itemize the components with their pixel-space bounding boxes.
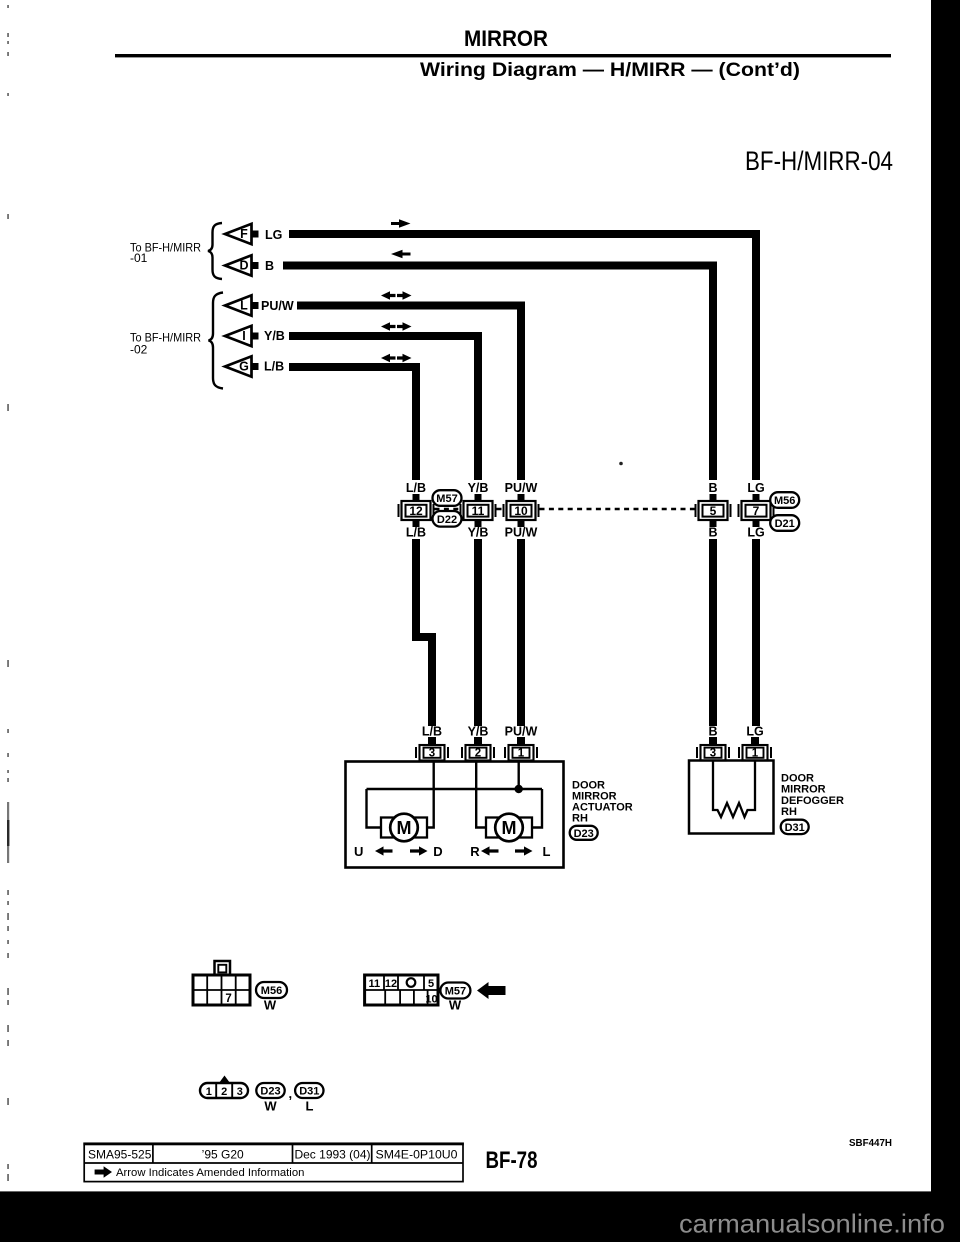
svg-text:’95 G20: ’95 G20 xyxy=(202,1148,244,1162)
motor M right/left xyxy=(486,814,532,842)
svg-text:3: 3 xyxy=(710,748,716,760)
svg-text:M57: M57 xyxy=(436,493,457,505)
svg-text:RH: RH xyxy=(572,813,588,825)
svg-text:W: W xyxy=(264,998,277,1013)
defogger heater element resistor xyxy=(713,761,755,818)
connector label D23 xyxy=(570,826,598,840)
svg-text:Y/B: Y/B xyxy=(468,481,489,495)
connector face D23/D31 body xyxy=(200,1083,248,1098)
amended-section pointer arrow xyxy=(477,982,506,999)
connector label D31 xyxy=(781,820,809,834)
in-line connector pin 7 xyxy=(738,494,775,527)
wire label Y/B above connector 11 xyxy=(468,481,489,495)
wire B lower vertical xyxy=(709,539,717,726)
svg-text:1: 1 xyxy=(206,1086,212,1098)
in-line connector pin 11 xyxy=(460,494,497,527)
svg-text:SMA95-525: SMA95-525 xyxy=(88,1148,152,1162)
defogger pin 1 xyxy=(738,737,772,761)
connector label M57 xyxy=(433,490,462,506)
svg-text:LG: LG xyxy=(747,526,764,540)
svg-text:M57: M57 xyxy=(445,986,466,998)
wire B horizontal xyxy=(283,262,717,270)
connector label D23 (face) xyxy=(256,1083,284,1098)
connector label D31 (face) xyxy=(295,1083,323,1098)
svg-text:L: L xyxy=(306,1099,314,1114)
svg-text:B: B xyxy=(708,725,717,739)
wire LG vertical upper xyxy=(752,230,760,480)
diagram code BF-H/MIRR-04 xyxy=(745,146,893,176)
wire Y/B horizontal xyxy=(289,332,482,340)
svg-text:G: G xyxy=(239,360,249,374)
svg-text:I: I xyxy=(242,329,245,343)
svg-text:PU/W: PU/W xyxy=(505,725,538,739)
connector arrow G xyxy=(225,356,259,376)
in-line connector pin 12 xyxy=(398,494,435,527)
svg-text:12: 12 xyxy=(385,978,397,990)
svg-text:L/B: L/B xyxy=(406,526,426,540)
label DOOR MIRROR ACTUATOR RH xyxy=(572,779,633,824)
junction node on PU/W feed xyxy=(515,785,523,793)
dashed connector separation line xyxy=(435,508,695,510)
svg-text:LG: LG xyxy=(746,725,763,739)
svg-text:D23: D23 xyxy=(574,828,594,840)
amended double arrow (L/B wire) xyxy=(381,354,412,362)
footer cell SMA95-525 xyxy=(88,1148,152,1162)
footer cell 95 G20 xyxy=(202,1148,244,1162)
wire label LG xyxy=(265,228,282,242)
svg-text:B: B xyxy=(708,481,717,495)
svg-text:SM4E-0P10U0: SM4E-0P10U0 xyxy=(376,1148,458,1162)
actuator pin 1 xyxy=(504,737,538,761)
connector label M57 (face) xyxy=(440,983,470,999)
watermark carmanualsonline.info xyxy=(679,1209,945,1239)
wire label PU/W below connector 10 xyxy=(505,526,538,540)
svg-text:M56: M56 xyxy=(261,985,282,997)
svg-text:D31: D31 xyxy=(785,822,805,834)
wire label PU/W above connector 10 xyxy=(505,481,538,495)
svg-text:2: 2 xyxy=(221,1086,227,1098)
svg-text:PU/W: PU/W xyxy=(505,526,538,540)
svg-text:MIRROR: MIRROR xyxy=(781,784,826,796)
svg-text:LG: LG xyxy=(265,228,282,242)
svg-text:R: R xyxy=(470,844,480,859)
connector face M57 grid xyxy=(365,975,438,1006)
svg-text:DEFOGGER: DEFOGGER xyxy=(781,795,844,807)
comma separator xyxy=(289,1086,293,1101)
footer cell Dec 1993 (04) xyxy=(294,1148,370,1162)
wire Y/B vertical upper xyxy=(474,332,482,480)
wire label Y/B xyxy=(264,329,285,343)
wire label B above defogger pin 3 xyxy=(708,725,717,739)
svg-text:SBF447H: SBF447H xyxy=(849,1137,892,1149)
wire label B above connector 5 xyxy=(708,481,717,495)
wire PU/W lower vertical xyxy=(517,539,525,726)
svg-text:3: 3 xyxy=(237,1086,243,1098)
connector label M56 (face) xyxy=(256,982,287,998)
svg-text:L/B: L/B xyxy=(264,360,284,374)
in-line connector pin 5 xyxy=(695,494,732,527)
wire L/B horizontal xyxy=(289,363,420,371)
scan mark vertical line left margin xyxy=(7,802,9,863)
svg-text:PU/W: PU/W xyxy=(505,481,538,495)
connector arrow F xyxy=(225,224,259,244)
colour code W (D23) xyxy=(264,1099,277,1114)
footer cell SM4E-0P10U0 xyxy=(376,1148,458,1162)
svg-text:B: B xyxy=(265,259,274,273)
svg-text:M56: M56 xyxy=(774,495,795,507)
wire L/B lower vertical with jog xyxy=(412,539,436,726)
brace for group -01 xyxy=(208,223,222,279)
svg-text:D23: D23 xyxy=(260,1086,280,1098)
scan specks left margin xyxy=(7,5,9,1181)
wire L/B vertical upper xyxy=(412,363,420,480)
svg-text:-02: -02 xyxy=(130,343,148,357)
scanner black bar bottom xyxy=(0,1191,960,1242)
svg-text:10: 10 xyxy=(514,504,528,518)
svg-text:Wiring Diagram — H/MIRR — (Con: Wiring Diagram — H/MIRR — (Cont’d) xyxy=(420,60,800,81)
svg-text:BF-78: BF-78 xyxy=(486,1147,538,1174)
svg-text:-01: -01 xyxy=(130,251,148,265)
wire PU/W horizontal xyxy=(297,302,525,310)
speck near dashed line xyxy=(619,462,623,466)
wire label B below connector 5 xyxy=(708,526,717,540)
connector arrow D xyxy=(225,255,259,275)
wire label PU/W xyxy=(261,299,294,313)
amended arrow right (LG wire) xyxy=(391,219,411,227)
wire LG lower vertical xyxy=(752,539,760,726)
svg-text:B: B xyxy=(708,526,717,540)
wire B vertical upper xyxy=(709,262,717,481)
svg-text:D22: D22 xyxy=(437,514,457,526)
svg-text:D31: D31 xyxy=(299,1086,319,1098)
svg-text:LG: LG xyxy=(747,481,764,495)
svg-text:Y/B: Y/B xyxy=(468,725,489,739)
wire Y/B lower vertical xyxy=(474,539,482,726)
connector face D23/D31 clip xyxy=(219,1076,230,1084)
actuator pin 2 xyxy=(461,737,495,761)
in-line connector pin 10 xyxy=(503,494,540,527)
connector label M56 xyxy=(770,492,799,508)
brace for group -02 xyxy=(209,293,224,389)
footer table frame xyxy=(83,1143,463,1182)
svg-text:W: W xyxy=(264,1099,277,1114)
amended double arrow (Y/B wire) xyxy=(381,322,412,330)
wire label L/B xyxy=(264,360,284,374)
scanner black strip right xyxy=(931,0,960,1242)
svg-text:F: F xyxy=(240,227,248,241)
amended double arrow (PU/W wire) xyxy=(381,291,412,299)
wire label LG above connector 7 xyxy=(747,481,764,495)
svg-text:2: 2 xyxy=(475,748,481,760)
svg-text:7: 7 xyxy=(753,504,760,518)
svg-text:5: 5 xyxy=(428,978,434,990)
svg-text:PU/W: PU/W xyxy=(261,299,294,313)
label To BF-H/MIRR -01 xyxy=(130,241,201,266)
svg-text:RH: RH xyxy=(781,806,797,818)
svg-text:BF-H/MIRR-04: BF-H/MIRR-04 xyxy=(745,146,893,176)
page number BF-78 xyxy=(486,1147,538,1174)
header rule line xyxy=(115,54,891,57)
svg-text:Y/B: Y/B xyxy=(468,526,489,540)
actuator internal wiring xyxy=(367,761,543,828)
svg-text:1: 1 xyxy=(752,748,759,760)
amended arrow left (B wire) xyxy=(391,250,411,258)
svg-text:12: 12 xyxy=(409,504,423,518)
subtitle Wiring Diagram - H/MIRR - (Cont'd) xyxy=(420,60,800,81)
wire label LG above defogger pin 1 xyxy=(746,725,763,739)
svg-text:MIRROR: MIRROR xyxy=(464,26,548,51)
wire label PU/W above actuator pin 1 xyxy=(505,725,538,739)
svg-text:3: 3 xyxy=(429,748,435,760)
wire label Y/B above actuator pin 2 xyxy=(468,725,489,739)
svg-text:M: M xyxy=(397,818,412,838)
svg-text:DOOR: DOOR xyxy=(781,773,814,785)
colour code W (M57) xyxy=(449,998,462,1013)
wire label L/B above actuator pin 3 xyxy=(422,725,442,739)
door mirror defogger box xyxy=(689,761,774,834)
label DOOR MIRROR DEFOGGER RH xyxy=(781,773,844,819)
label To BF-H/MIRR -02 xyxy=(130,331,201,357)
figure code SBF447H xyxy=(849,1137,892,1149)
wire PU/W vertical upper xyxy=(517,302,525,481)
actuator direction legend R/L xyxy=(470,844,550,859)
connector face M56 clip xyxy=(215,961,231,976)
svg-text:Arrow Indicates Amended Inform: Arrow Indicates Amended Information xyxy=(116,1167,304,1179)
actuator direction legend U/D xyxy=(354,844,443,859)
connector arrow L xyxy=(225,295,259,315)
svg-text:D21: D21 xyxy=(775,518,795,530)
connector arrow I xyxy=(225,326,259,346)
svg-text:7: 7 xyxy=(225,993,231,1005)
defogger pin 3 xyxy=(696,737,730,761)
connector label D22 xyxy=(433,511,462,527)
svg-text:L/B: L/B xyxy=(406,481,426,495)
colour code W (M56) xyxy=(264,998,277,1013)
svg-text:M: M xyxy=(502,818,517,838)
connector label D21 xyxy=(770,515,799,531)
svg-text:5: 5 xyxy=(710,504,717,518)
svg-text:1: 1 xyxy=(518,748,525,760)
svg-text:10: 10 xyxy=(425,994,437,1006)
svg-text:L: L xyxy=(543,844,551,859)
svg-text:carmanualsonline.info: carmanualsonline.info xyxy=(679,1209,945,1239)
svg-text:Y/B: Y/B xyxy=(264,329,285,343)
svg-text:D: D xyxy=(239,259,248,273)
wire label L/B above connector 12 xyxy=(406,481,426,495)
svg-text:D: D xyxy=(433,844,442,859)
svg-text:,: , xyxy=(289,1086,293,1101)
door mirror actuator box xyxy=(346,762,564,868)
svg-text:L/B: L/B xyxy=(422,725,442,739)
svg-text:W: W xyxy=(449,998,462,1013)
amended information note xyxy=(95,1166,305,1179)
wire label LG below connector 7 xyxy=(747,526,764,540)
svg-text:11: 11 xyxy=(368,978,380,990)
wire label Y/B below connector 11 xyxy=(468,526,489,540)
svg-text:Dec 1993 (04): Dec 1993 (04) xyxy=(294,1148,370,1162)
svg-text:L: L xyxy=(240,299,248,313)
wire label L/B below connector 12 xyxy=(406,526,426,540)
page title MIRROR xyxy=(464,26,548,51)
wire LG horizontal xyxy=(289,230,760,238)
connector face M56 grid xyxy=(193,975,250,1005)
actuator pin 3 xyxy=(415,737,449,761)
svg-text:U: U xyxy=(354,844,363,859)
colour code L (D31) xyxy=(306,1099,314,1114)
wire label B xyxy=(265,259,274,273)
motor M up/down xyxy=(381,814,427,842)
svg-text:11: 11 xyxy=(472,504,485,518)
